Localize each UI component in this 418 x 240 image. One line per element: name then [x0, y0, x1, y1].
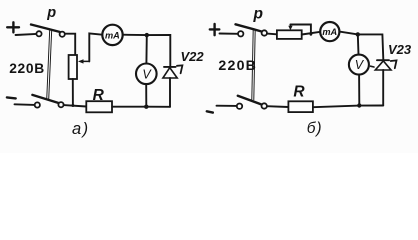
- svg-text:а): а): [72, 120, 90, 138]
- svg-text:V23: V23: [388, 42, 412, 57]
- svg-text:mA: mA: [105, 30, 120, 40]
- svg-text:V22: V22: [181, 49, 205, 64]
- svg-text:R: R: [293, 84, 305, 101]
- svg-text:mA: mA: [322, 27, 337, 37]
- svg-text:р: р: [253, 6, 263, 23]
- svg-text:R: R: [93, 87, 105, 104]
- svg-text:р: р: [46, 5, 56, 21]
- svg-text:б): б): [307, 120, 322, 137]
- svg-text:220В: 220В: [218, 58, 257, 74]
- svg-text:220В: 220В: [9, 61, 45, 76]
